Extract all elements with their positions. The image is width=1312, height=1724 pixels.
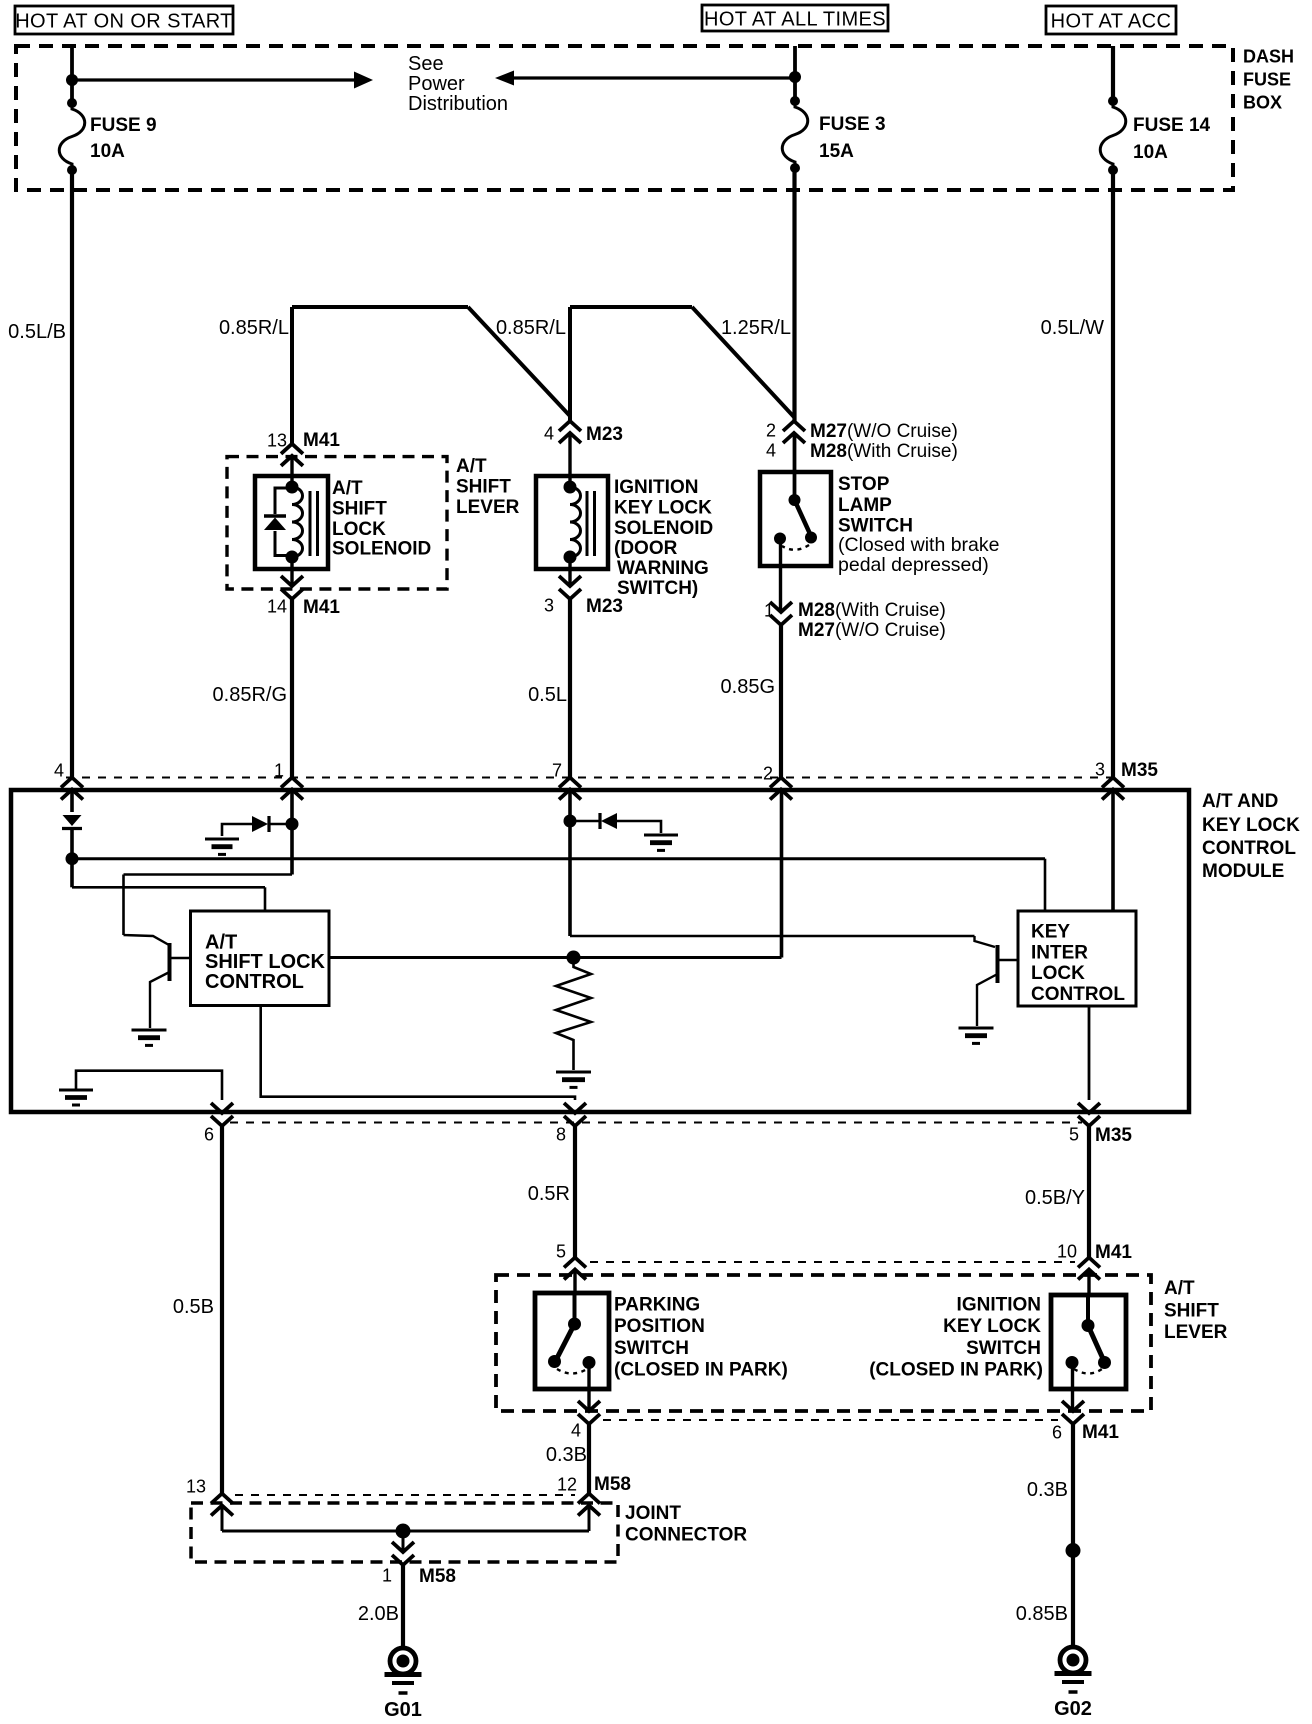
svg-text:(CLOSED IN PARK): (CLOSED IN PARK): [614, 1359, 788, 1380]
svg-text:0.85G: 0.85G: [721, 676, 775, 698]
svg-text:LAMP: LAMP: [838, 495, 892, 516]
svg-text:M35: M35: [1121, 760, 1158, 781]
svg-text:13: 13: [186, 1477, 206, 1497]
svg-text:CONTROL: CONTROL: [1202, 838, 1296, 859]
svg-text:13: 13: [267, 431, 287, 451]
svg-text:STOP: STOP: [838, 474, 890, 495]
svg-text:0.5R: 0.5R: [528, 1183, 570, 1205]
svg-text:5: 5: [1069, 1125, 1079, 1145]
svg-text:SWITCH: SWITCH: [966, 1338, 1041, 1359]
svg-text:M23: M23: [586, 596, 623, 617]
svg-text:CONTROL: CONTROL: [205, 971, 304, 993]
svg-text:M35: M35: [1095, 1125, 1132, 1146]
svg-text:FUSE 9: FUSE 9: [90, 115, 157, 136]
svg-text:M28(With Cruise): M28(With Cruise): [810, 441, 958, 462]
svg-text:LOCK: LOCK: [1031, 963, 1085, 984]
svg-text:Distribution: Distribution: [408, 93, 508, 115]
svg-text:See: See: [408, 53, 444, 75]
svg-text:CONTROL: CONTROL: [1031, 984, 1125, 1005]
svg-text:M27(W/O Cruise): M27(W/O Cruise): [798, 620, 946, 641]
svg-text:JOINT: JOINT: [625, 1503, 681, 1524]
svg-text:A/T: A/T: [332, 478, 363, 499]
svg-text:KEY: KEY: [1031, 921, 1070, 942]
svg-text:10: 10: [1057, 1242, 1077, 1262]
svg-text:SHIFT: SHIFT: [456, 476, 511, 497]
svg-text:10A: 10A: [90, 141, 125, 162]
svg-text:FUSE: FUSE: [1243, 70, 1291, 90]
svg-text:M58: M58: [419, 1566, 456, 1587]
svg-text:0.3B: 0.3B: [1027, 1479, 1068, 1501]
svg-text:1: 1: [382, 1566, 392, 1586]
svg-text:0.85R/G: 0.85R/G: [213, 684, 287, 706]
svg-text:0.5L/B: 0.5L/B: [8, 321, 66, 343]
svg-text:1: 1: [274, 761, 284, 781]
svg-text:1.25R/L: 1.25R/L: [721, 317, 791, 339]
svg-text:7: 7: [552, 761, 562, 781]
svg-text:5: 5: [556, 1242, 566, 1262]
svg-text:M41: M41: [1082, 1422, 1119, 1443]
svg-text:M41: M41: [1095, 1242, 1132, 1263]
svg-text:M41: M41: [303, 597, 340, 618]
svg-text:G01: G01: [384, 1699, 422, 1721]
svg-text:A/T: A/T: [1164, 1278, 1195, 1299]
svg-text:6: 6: [1052, 1423, 1062, 1443]
svg-text:M41: M41: [303, 430, 340, 451]
svg-text:LEVER: LEVER: [1164, 1322, 1228, 1343]
svg-text:WARNING: WARNING: [617, 558, 709, 579]
svg-text:(Closed with brake: (Closed with brake: [838, 534, 999, 556]
svg-text:0.85B: 0.85B: [1016, 1603, 1068, 1625]
svg-text:pedal depressed): pedal depressed): [838, 554, 989, 576]
svg-text:HOT AT ACC: HOT AT ACC: [1051, 11, 1172, 33]
svg-text:1: 1: [764, 601, 774, 621]
svg-text:6: 6: [204, 1125, 214, 1145]
svg-text:KEY LOCK: KEY LOCK: [943, 1316, 1041, 1337]
svg-text:3: 3: [544, 596, 554, 616]
svg-text:(CLOSED IN PARK): (CLOSED IN PARK): [869, 1359, 1043, 1380]
svg-text:15A: 15A: [819, 141, 854, 162]
svg-text:G02: G02: [1054, 1698, 1092, 1720]
svg-text:4: 4: [544, 424, 554, 444]
svg-text:MODULE: MODULE: [1202, 861, 1284, 882]
svg-text:A/T: A/T: [456, 456, 487, 477]
svg-text:0.3B: 0.3B: [546, 1444, 587, 1466]
svg-text:14: 14: [267, 597, 287, 617]
svg-text:4: 4: [571, 1421, 581, 1441]
svg-text:SHIFT LOCK: SHIFT LOCK: [205, 951, 326, 973]
svg-text:(DOOR: (DOOR: [614, 538, 678, 559]
svg-text:SOLENOID: SOLENOID: [332, 538, 431, 559]
svg-text:0.85R/L: 0.85R/L: [496, 317, 566, 339]
svg-text:IGNITION: IGNITION: [957, 1294, 1041, 1315]
svg-text:KEY LOCK: KEY LOCK: [1202, 815, 1300, 836]
svg-text:2.0B: 2.0B: [358, 1603, 399, 1625]
svg-text:M28(With Cruise): M28(With Cruise): [798, 600, 946, 621]
svg-text:0.5B: 0.5B: [173, 1296, 214, 1318]
svg-text:FUSE 14: FUSE 14: [1133, 115, 1211, 136]
svg-text:M27(W/O Cruise): M27(W/O Cruise): [810, 421, 958, 442]
svg-text:BOX: BOX: [1243, 93, 1282, 113]
svg-text:2: 2: [763, 764, 773, 784]
svg-text:IGNITION: IGNITION: [614, 477, 698, 498]
svg-text:INTER: INTER: [1031, 942, 1088, 963]
svg-text:SWITCH): SWITCH): [617, 578, 698, 599]
svg-text:2: 2: [766, 421, 776, 441]
svg-text:HOT AT ALL TIMES: HOT AT ALL TIMES: [704, 9, 886, 31]
svg-text:KEY LOCK: KEY LOCK: [614, 497, 712, 518]
svg-text:M58: M58: [594, 1474, 631, 1495]
svg-text:A/T AND: A/T AND: [1202, 791, 1278, 812]
svg-text:SHIFT: SHIFT: [332, 498, 387, 519]
svg-text:3: 3: [1095, 760, 1105, 780]
svg-text:4: 4: [766, 441, 776, 461]
svg-text:SOLENOID: SOLENOID: [614, 518, 713, 539]
svg-text:SHIFT: SHIFT: [1164, 1300, 1219, 1321]
svg-text:LEVER: LEVER: [456, 497, 520, 518]
svg-text:LOCK: LOCK: [332, 519, 386, 540]
svg-text:12: 12: [557, 1475, 577, 1495]
svg-text:4: 4: [54, 761, 64, 781]
svg-text:Power: Power: [408, 73, 465, 95]
svg-text:CONNECTOR: CONNECTOR: [625, 1524, 747, 1545]
svg-text:M23: M23: [586, 424, 623, 445]
svg-text:DASH: DASH: [1243, 47, 1294, 67]
svg-text:0.5L: 0.5L: [528, 684, 567, 706]
svg-text:PARKING: PARKING: [614, 1294, 700, 1315]
svg-text:10A: 10A: [1133, 142, 1168, 163]
svg-text:0.5L/W: 0.5L/W: [1041, 317, 1104, 339]
svg-text:HOT AT ON OR START: HOT AT ON OR START: [15, 11, 233, 33]
svg-text:0.5B/Y: 0.5B/Y: [1025, 1187, 1085, 1209]
svg-text:FUSE 3: FUSE 3: [819, 114, 886, 135]
svg-text:SWITCH: SWITCH: [614, 1338, 689, 1359]
svg-text:0.85R/L: 0.85R/L: [219, 317, 289, 339]
svg-text:POSITION: POSITION: [614, 1316, 705, 1337]
svg-text:8: 8: [556, 1125, 566, 1145]
